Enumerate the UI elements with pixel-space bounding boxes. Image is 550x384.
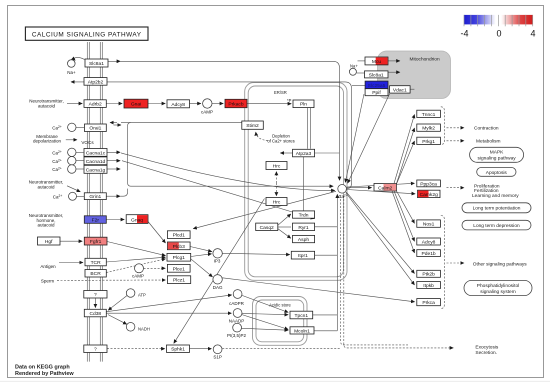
pathway Apoptosis rounded	[477, 168, 516, 177]
gene box Prkca	[417, 299, 441, 307]
wire Atp2a3 to store vertical	[302, 157, 304, 211]
gene box question upper	[84, 291, 107, 299]
gene box Hrc lower	[266, 198, 287, 206]
gene box Sphk1	[167, 345, 190, 353]
svg-text:Ppp3ca: Ppp3ca	[420, 181, 437, 187]
wire Cacna1 to node diagonal	[121, 153, 335, 191]
wire Plcb3 to IP3	[190, 247, 212, 252]
svg-text:Adcy8: Adcy8	[422, 239, 436, 245]
wire DAG to Prkca	[222, 278, 414, 302]
wire node fan to Ppp3ca Camk2g Ptk2b Itpkb	[347, 183, 415, 187]
svg-text:Cacna1c: Cacna1c	[86, 150, 106, 156]
svg-text:Slc25a5: Slc25a5	[368, 83, 386, 89]
svg-text:4: 4	[530, 29, 535, 39]
wire mito Slc8a1 arrow	[388, 71, 400, 73]
svg-text:Gnaq: Gnaq	[131, 217, 143, 223]
wire Vdac1 stub	[410, 88, 414, 90]
gene box question lower	[84, 345, 107, 353]
node ATP circle	[126, 289, 135, 298]
wire Adrb2 to Gnai	[106, 103, 122, 105]
wire cAMP to Prkacb	[212, 103, 223, 105]
wire Slc8a1 out arrow	[108, 60, 120, 62]
gene box Atp2b2	[84, 78, 107, 86]
svg-text:autacoid: autacoid	[37, 184, 55, 189]
gene box Trdn	[293, 211, 315, 219]
gene box Stim2	[242, 121, 263, 129]
gene box Hgf	[38, 237, 61, 245]
wire Cacna1 to Trdn diagonal	[122, 161, 314, 219]
wire mito box stubs	[358, 60, 366, 62]
svg-text:Phosphatidylinositol: Phosphatidylinositol	[477, 283, 519, 289]
gene box Casq2	[256, 223, 278, 231]
gene box Adcy8	[167, 100, 190, 108]
gene box Cacna1g	[84, 165, 107, 173]
svg-text:Other signaling pathways: Other signaling pathways	[473, 261, 527, 267]
gene box Slc25a4 blue	[365, 81, 388, 89]
color key gradient bar	[464, 15, 533, 25]
node NADH circle	[126, 323, 135, 332]
svg-text:cAMP: cAMP	[201, 110, 213, 115]
svg-text:?: ?	[94, 347, 97, 353]
wire Adcy8 to cAMP	[190, 103, 201, 105]
wire BCR to Plcg1 dashed	[106, 259, 165, 273]
node cADPR circle	[233, 290, 242, 299]
svg-text:Itpr1: Itpr1	[298, 253, 308, 259]
svg-text:cAMP: cAMP	[132, 273, 144, 278]
svg-text:VOCs: VOCs	[81, 140, 94, 145]
gene box Prkg1	[417, 137, 441, 145]
wire Cacna1 arrows	[107, 151, 120, 153]
gene box Orai1	[85, 124, 107, 132]
wire Gnaq to Plcb3	[148, 222, 166, 244]
wire depletion dashed to Stim2	[256, 132, 268, 141]
wire Sphk1 to S1P	[190, 348, 212, 350]
svg-text:Rendered by Pathview: Rendered by Pathview	[15, 371, 74, 377]
svg-text:Tnnc1: Tnnc1	[422, 112, 436, 118]
title box	[25, 27, 148, 40]
node Ca2+ circles left	[68, 123, 76, 131]
gene box Slc8a1	[85, 59, 108, 67]
wire Antigen to TCR	[59, 262, 83, 264]
dashed arrow Contraction	[447, 127, 465, 129]
svg-text:Prkg1: Prkg1	[422, 139, 435, 145]
svg-text:Adcy8: Adcy8	[171, 102, 185, 108]
wire neurotransmitter to Adrb2	[67, 103, 82, 105]
svg-text:Exocytosis: Exocytosis	[475, 345, 499, 351]
gene box Cacna1d	[84, 157, 107, 165]
pathway MAPK rounded	[470, 147, 524, 162]
node central Ca2+ circle	[338, 185, 347, 194]
wire VOCs arrow	[66, 139, 77, 141]
svg-text:IP3: IP3	[214, 259, 221, 264]
svg-text:Secretion.: Secretion.	[475, 350, 497, 356]
svg-text:Data on KEGG graph: Data on KEGG graph	[15, 364, 70, 370]
svg-text:Adrb2: Adrb2	[89, 102, 102, 108]
gene box F2r blue	[84, 216, 106, 224]
wire Sperm to Plcz1 dashed	[57, 279, 166, 281]
gene box Vdac1	[390, 86, 411, 94]
wire Atp2a3 pump left arrow	[280, 152, 292, 154]
svg-text:Prkacb: Prkacb	[228, 102, 244, 108]
svg-text:Metabolism: Metabolism	[476, 139, 501, 145]
svg-text:Calm2: Calm2	[378, 185, 392, 191]
wire Slc8a1 Na loop	[74, 57, 84, 60]
svg-text:depolarization: depolarization	[33, 139, 62, 144]
svg-text:PI(3,5)P2: PI(3,5)P2	[227, 333, 247, 338]
svg-text:Sperm: Sperm	[41, 279, 55, 284]
gene box Plce1	[167, 264, 190, 272]
gene box Prkacb red	[225, 99, 247, 107]
svg-text:Hrc: Hrc	[273, 200, 281, 206]
gene box Ryr1	[293, 223, 315, 231]
gene box Mcu half red	[365, 57, 388, 65]
acidic store organelle	[253, 297, 308, 346]
mitochondrion blob	[378, 51, 451, 99]
svg-text:NADH: NADH	[138, 326, 150, 331]
svg-text:Prkca: Prkca	[422, 300, 435, 306]
wire NAADP to Tpcn1	[242, 313, 288, 314]
node Na+ circle top	[68, 60, 76, 68]
svg-text:CALCIUM SIGNALING PATHWAY: CALCIUM SIGNALING PATHWAY	[32, 31, 142, 38]
wire neurotransmitter to Grin1	[67, 186, 80, 192]
svg-text:Plcb3: Plcb3	[173, 244, 186, 250]
gene box Cd38	[84, 309, 106, 317]
wire IP3 to Itpr1	[222, 253, 289, 254]
svg-text:Plce1: Plce1	[173, 266, 186, 272]
wire Plcg1 to IP3	[191, 254, 212, 257]
wire ? to Sphk1 dashed	[107, 348, 165, 350]
wire Plc to DAG	[191, 259, 213, 277]
wire Hgf to Fgfr1	[60, 240, 82, 242]
faint bottom page edge	[0, 380, 550, 382]
svg-text:Camk2g: Camk2g	[420, 192, 438, 198]
svg-text:-4: -4	[460, 29, 468, 39]
node cAMP circle lower	[135, 264, 144, 273]
gene box Fgfr1 red	[84, 237, 107, 245]
svg-text:Trdn: Trdn	[299, 213, 309, 219]
svg-text:Na+: Na+	[67, 70, 76, 75]
wire Ryr1 Itpr1 Tpcn1 Mcoln1 to node vertical	[315, 226, 338, 228]
wire Ca circle stubs	[76, 126, 85, 128]
wire Pln to Atp2a3 double	[306, 108, 308, 149]
svg-text:cADPR: cADPR	[229, 301, 245, 306]
gene box Atp2a3	[293, 149, 315, 157]
wire ? to Cd38	[94, 298, 96, 307]
svg-text:Fgfr1: Fgfr1	[90, 239, 102, 245]
svg-text:Plcd1: Plcd1	[173, 233, 186, 239]
svg-text:Plcg1: Plcg1	[173, 255, 186, 261]
svg-text:NAADP: NAADP	[229, 318, 245, 323]
plasma membrane double lines	[87, 42, 102, 362]
node PI35P2 circle	[233, 323, 242, 332]
gene box Cacna1c	[84, 149, 107, 157]
svg-text:signaling system: signaling system	[480, 289, 515, 295]
svg-text:signaling pathway: signaling pathway	[478, 156, 517, 162]
wire F2r to Gnaq	[106, 219, 124, 221]
wire PI35P2 to Mcoln1	[242, 328, 289, 330]
gene box Pde1b	[417, 250, 441, 257]
svg-text:Slc8a1: Slc8a1	[369, 72, 384, 78]
wire Cd38 to NAADP	[106, 312, 231, 314]
svg-text:Ca2+: Ca2+	[52, 150, 62, 155]
svg-text:BCR: BCR	[90, 271, 101, 277]
svg-text:*P: *P	[287, 98, 292, 103]
svg-text:Orai1: Orai1	[89, 126, 101, 132]
wire ATP to Cd38	[108, 296, 127, 311]
svg-text:Cacna1g: Cacna1g	[86, 167, 106, 173]
svg-text:Sphk1: Sphk1	[171, 347, 185, 353]
svg-text:Atp2a3: Atp2a3	[296, 151, 312, 157]
wire Cd38 to NADH	[108, 315, 127, 325]
wire NAADP to Mcoln1	[242, 315, 288, 330]
svg-text:Gnai: Gnai	[131, 102, 141, 108]
svg-text:Ryr1: Ryr1	[298, 225, 309, 231]
svg-text:Atp2b2: Atp2b2	[88, 79, 104, 85]
dashed arrow Proliferation	[447, 187, 465, 189]
gene box Adcy8 right	[417, 238, 441, 245]
svg-text:Grin1: Grin1	[89, 194, 101, 200]
node mito Na+ circle	[349, 68, 356, 75]
svg-text:Stim2: Stim2	[246, 123, 259, 129]
wire S1P dashed right	[222, 347, 340, 349]
gene box Tpcn1	[290, 311, 313, 319]
gene box Ppp3ca	[417, 180, 441, 187]
gene box Tnnc1	[417, 110, 441, 118]
svg-text:TCR: TCR	[91, 260, 102, 266]
wire node to Calm2	[347, 187, 372, 189]
wire bracket Orai1 down to node	[128, 123, 334, 187]
gene box Camk2g half red	[418, 190, 441, 198]
gene box BCR	[85, 270, 106, 278]
gene box Gnai red	[124, 99, 148, 108]
node NAADP circle	[233, 309, 242, 318]
gene box TCR	[85, 258, 106, 266]
svg-text:Cd38: Cd38	[89, 311, 101, 317]
gene box Mylk2	[417, 124, 441, 132]
gene box Mcoln1	[290, 327, 314, 335]
svg-text:Tpcn1: Tpcn1	[295, 313, 309, 319]
wire Hrc to Sphk1 diagonal	[174, 199, 265, 344]
svg-text:Nos1: Nos1	[423, 222, 435, 228]
gene box Itpr1	[291, 251, 314, 259]
svg-text:Pde1b: Pde1b	[422, 251, 436, 257]
dashed arrow Metabolism	[447, 140, 465, 142]
svg-text:Long term potentiation: Long term potentiation	[473, 206, 521, 212]
svg-text:Ca2+: Ca2+	[339, 194, 348, 199]
svg-text:Cacna1d: Cacna1d	[86, 159, 106, 165]
ER/SR organelle double rounded rect	[245, 83, 347, 281]
svg-text:Na+: Na+	[350, 64, 358, 69]
wire cADPR to Tpcn1	[242, 295, 288, 312]
svg-text:MAPK: MAPK	[490, 150, 504, 156]
node cAMP circle top	[203, 99, 212, 108]
svg-text:Itpkb: Itpkb	[423, 283, 434, 289]
pathway Phosphatidylinositol	[464, 280, 532, 295]
pathway Long term potentiation	[462, 203, 531, 213]
gene box Grin1	[84, 193, 106, 200]
gene box Itpkb	[417, 282, 441, 289]
svg-text:Slc8a1: Slc8a1	[89, 61, 104, 67]
wire Atp2b2 efflux	[71, 81, 345, 83]
wire Hrc dashed double arrow	[275, 172, 277, 183]
svg-text:Ca2+: Ca2+	[52, 125, 62, 130]
gene box Plcb3 red	[167, 242, 190, 250]
gene box Pln	[293, 100, 314, 108]
gene box Nos1	[417, 220, 441, 228]
wire cAMP to Plce1 dashed	[144, 267, 166, 269]
wire Mcu arrow into mito	[388, 60, 400, 62]
svg-text:Long term depression: Long term depression	[473, 223, 520, 229]
svg-text:F2r: F2r	[92, 218, 100, 224]
svg-text:Mitochondrion: Mitochondrion	[410, 56, 440, 62]
svg-text:Hrc: Hrc	[273, 164, 281, 170]
gene box Plcz1	[167, 276, 190, 284]
gene box mito Slc8a1	[365, 71, 389, 78]
svg-text:S1P: S1P	[213, 354, 222, 359]
node S1P circle	[213, 345, 222, 354]
svg-text:Ca2+: Ca2+	[52, 158, 62, 163]
gene box Plcd1	[167, 231, 190, 239]
wire Fgfr1 to Plcg1	[107, 242, 166, 256]
gene box Ptk2b	[417, 270, 441, 277]
svg-text:Mcu: Mcu	[372, 59, 382, 65]
gene box Adrb2	[84, 100, 106, 108]
wire Orai1 to Stim2	[121, 122, 242, 124]
svg-text:Mcoln1: Mcoln1	[294, 328, 310, 334]
svg-text:Ca2+: Ca2+	[53, 194, 63, 199]
svg-text:Apoptosis: Apoptosis	[486, 170, 508, 176]
dashed bracket right column upper	[441, 107, 445, 145]
svg-text:0: 0	[496, 29, 501, 39]
gene box Ppif	[365, 89, 388, 97]
svg-text:Plcz1: Plcz1	[173, 278, 185, 284]
wire TCR to Plcg1	[106, 257, 165, 262]
wire Gnai to Adcy8	[148, 103, 165, 105]
dashed bracket right column lower	[441, 216, 445, 309]
wire node dashed down to exocytosis	[341, 196, 408, 345]
wire Calm2 fan to Tnnc1 Mylk2 Prkg1	[394, 115, 415, 184]
svg-text:Learning and memory: Learning and memory	[472, 193, 519, 199]
wire Calm2 fan to Nos1 Adcy8 Pde1b	[397, 191, 415, 223]
wire Cd38 to cADPR	[106, 295, 231, 312]
svg-text:Casq2: Casq2	[260, 225, 274, 231]
wire Prkacb to Pln	[247, 103, 291, 105]
gene box Calm2 half red	[374, 184, 397, 192]
gene box Gnaq half red	[126, 215, 148, 224]
pathway Long term depression	[462, 220, 531, 230]
svg-text:Ptk2b: Ptk2b	[422, 272, 435, 278]
svg-text:ER/SR: ER/SR	[274, 90, 287, 95]
svg-text:Pln: Pln	[300, 102, 307, 108]
svg-text:Ppif: Ppif	[372, 90, 381, 96]
dashed arrow Other signaling	[447, 262, 465, 264]
wire Casq2 links	[278, 214, 291, 225]
svg-text:Contraction: Contraction	[474, 126, 499, 132]
wire Slc8a1 long line to node	[120, 61, 339, 180]
wire Orai1 bidirectional arrows	[110, 122, 117, 124]
svg-text:?: ?	[94, 292, 97, 298]
gene box Asph	[293, 235, 315, 243]
svg-text:ATP: ATP	[138, 293, 146, 298]
wire Grin1 elbow	[106, 195, 120, 197]
gene box Plcg1	[167, 253, 191, 261]
svg-text:Asph: Asph	[298, 237, 309, 243]
svg-text:of Ca2+ stores: of Ca2+ stores	[267, 138, 294, 143]
svg-text:autacoid: autacoid	[38, 103, 56, 108]
svg-text:Antigen: Antigen	[40, 264, 56, 269]
gene box Hrc upper	[266, 162, 287, 170]
svg-text:autacoid: autacoid	[37, 223, 55, 228]
wire node to Plcd1	[193, 191, 336, 228]
svg-text:Mylk2: Mylk2	[422, 126, 435, 132]
svg-text:Ca2+: Ca2+	[52, 167, 62, 172]
node DAG circle	[213, 275, 222, 284]
wire mito to node diagonals	[345, 94, 364, 182]
node IP3 circle	[213, 249, 222, 258]
svg-text:Hgf: Hgf	[45, 239, 53, 245]
svg-text:Vdac1: Vdac1	[393, 87, 407, 93]
svg-text:DAG: DAG	[213, 285, 223, 290]
